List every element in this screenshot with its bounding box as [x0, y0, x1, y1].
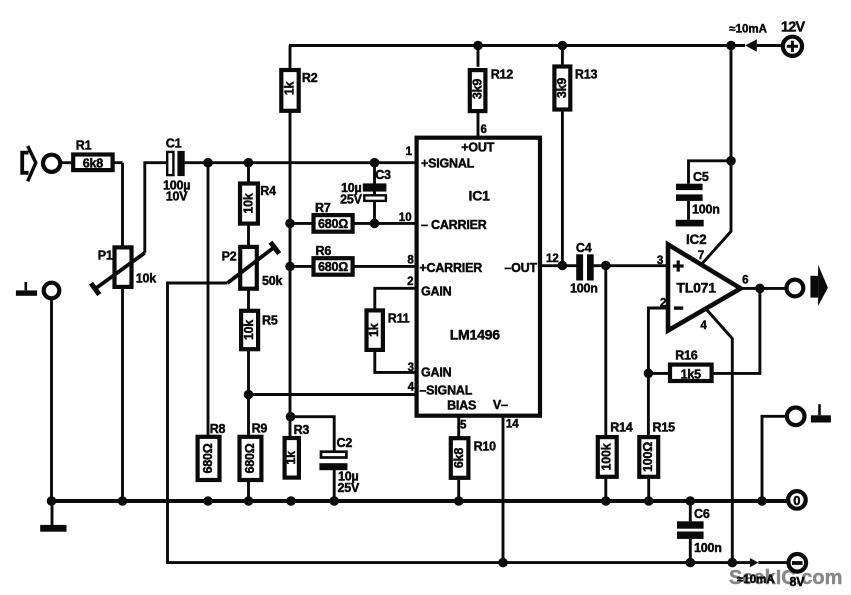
- svg-text:14: 14: [506, 419, 519, 431]
- svg-text:100Ω: 100Ω: [641, 442, 655, 472]
- svg-text:10k: 10k: [242, 320, 256, 341]
- svg-text:R15: R15: [653, 421, 676, 435]
- svg-text:LM1496: LM1496: [450, 327, 501, 343]
- svg-text:C1: C1: [166, 137, 182, 151]
- svg-text:R10: R10: [474, 439, 497, 453]
- svg-text:10k: 10k: [136, 271, 157, 285]
- svg-text:12: 12: [546, 253, 559, 265]
- svg-text:8: 8: [407, 254, 414, 266]
- svg-text:6k8: 6k8: [83, 156, 104, 170]
- svg-text:10k: 10k: [241, 193, 255, 214]
- svg-text:100n: 100n: [570, 282, 598, 296]
- svg-text:R1: R1: [76, 138, 92, 152]
- svg-text:C6: C6: [694, 507, 710, 521]
- svg-text:6: 6: [481, 124, 487, 136]
- svg-text:1k: 1k: [284, 451, 298, 465]
- svg-text:0: 0: [793, 493, 800, 508]
- svg-text:25V: 25V: [338, 481, 361, 495]
- svg-text:C2: C2: [337, 436, 353, 450]
- svg-text:≈10mA: ≈10mA: [729, 24, 767, 36]
- svg-text:C3: C3: [375, 168, 391, 182]
- svg-text:R4: R4: [260, 184, 276, 198]
- svg-text:1k5: 1k5: [681, 367, 702, 381]
- svg-text:10V: 10V: [166, 190, 189, 204]
- svg-text:3: 3: [657, 255, 663, 267]
- svg-text:R11: R11: [388, 311, 410, 325]
- svg-text:R7: R7: [315, 201, 331, 215]
- svg-text:GAIN: GAIN: [421, 285, 452, 299]
- svg-text:– CARRIER: – CARRIER: [421, 218, 487, 232]
- svg-text:R14: R14: [610, 421, 633, 435]
- svg-text:680Ω: 680Ω: [318, 260, 348, 274]
- svg-text:1k: 1k: [367, 323, 381, 337]
- svg-text:10: 10: [399, 212, 412, 224]
- svg-text:100n: 100n: [692, 203, 720, 217]
- svg-text:1k: 1k: [282, 82, 296, 96]
- svg-text:2: 2: [407, 276, 413, 288]
- svg-text:GAIN: GAIN: [421, 365, 452, 379]
- svg-text:3: 3: [408, 362, 414, 374]
- svg-text:3k9: 3k9: [555, 78, 569, 99]
- svg-text:2: 2: [660, 298, 666, 310]
- svg-text:C4: C4: [576, 241, 592, 255]
- svg-text:6k8: 6k8: [452, 448, 466, 469]
- svg-text:R3: R3: [294, 423, 310, 437]
- svg-text:25V: 25V: [340, 193, 363, 207]
- svg-text:100k: 100k: [599, 443, 613, 470]
- svg-text:50k: 50k: [262, 274, 283, 288]
- svg-text:–SIGNAL: –SIGNAL: [419, 384, 472, 398]
- svg-text:C5: C5: [693, 170, 709, 184]
- svg-text:6: 6: [742, 274, 748, 286]
- svg-text:IC1: IC1: [469, 187, 491, 203]
- svg-text:P1: P1: [98, 248, 113, 262]
- svg-text:R5: R5: [262, 314, 278, 328]
- svg-text:R9: R9: [252, 422, 268, 436]
- svg-text:V–: V–: [493, 398, 508, 412]
- svg-text:5: 5: [460, 419, 467, 431]
- svg-text:4: 4: [408, 382, 415, 394]
- svg-text:680Ω: 680Ω: [318, 217, 348, 231]
- svg-text:BIAS: BIAS: [447, 399, 476, 413]
- svg-text:8V: 8V: [790, 575, 806, 589]
- svg-text:IC2: IC2: [686, 232, 706, 247]
- svg-text:7: 7: [698, 250, 704, 262]
- svg-text:–OUT: –OUT: [504, 261, 537, 275]
- svg-text:P2: P2: [222, 250, 237, 264]
- svg-text:1: 1: [406, 146, 413, 158]
- svg-text:3k9: 3k9: [470, 79, 484, 100]
- svg-text:R12: R12: [491, 68, 514, 82]
- svg-text:R8: R8: [210, 422, 226, 436]
- svg-text:R13: R13: [575, 68, 598, 82]
- svg-text:100n: 100n: [694, 541, 722, 555]
- svg-text:≈10mA: ≈10mA: [737, 574, 775, 586]
- svg-text:+OUT: +OUT: [461, 141, 494, 155]
- svg-text:R2: R2: [302, 71, 318, 85]
- svg-text:R16: R16: [675, 349, 698, 363]
- svg-text:680Ω: 680Ω: [243, 443, 257, 473]
- svg-text:12V: 12V: [781, 19, 806, 35]
- svg-text:4: 4: [700, 320, 707, 332]
- svg-text:+CARRIER: +CARRIER: [419, 261, 482, 275]
- svg-text:+SIGNAL: +SIGNAL: [421, 156, 475, 170]
- svg-text:TL071: TL071: [676, 280, 716, 296]
- svg-text:680Ω: 680Ω: [201, 443, 215, 473]
- svg-text:R6: R6: [316, 244, 332, 258]
